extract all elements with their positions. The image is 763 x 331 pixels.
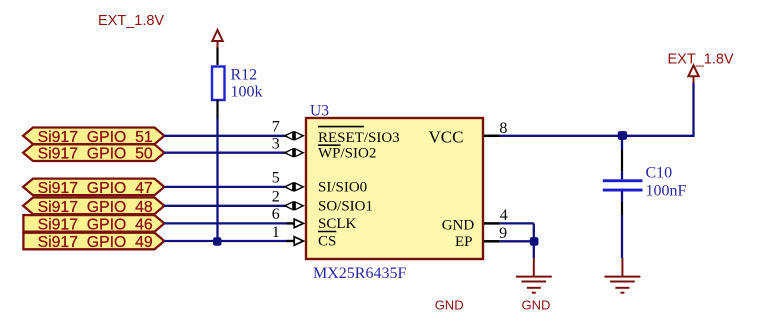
overline WP xyxy=(318,144,341,146)
wire EP pin 9 xyxy=(500,240,534,242)
svg-text:100nF: 100nF xyxy=(646,183,687,200)
svg-text:100k: 100k xyxy=(231,84,263,101)
power port arrow EXT_1.8V (left) xyxy=(212,30,222,48)
port Si917_GPIO_46 (flat left) xyxy=(23,215,164,233)
svg-text:RESET/SIO3: RESET/SIO3 xyxy=(318,130,400,146)
resistor R12 bottom pin xyxy=(216,100,218,120)
svg-text:SO/SIO1: SO/SIO1 xyxy=(318,199,373,215)
svg-text:EP: EP xyxy=(455,234,473,250)
wire net Si917_GPIO_48 to pin 2 xyxy=(164,205,286,207)
pin 3 bidirectional arrow xyxy=(283,148,305,157)
pin 8 stub xyxy=(484,135,500,138)
junction on CS net at R12 xyxy=(213,237,222,246)
port Si917_GPIO_49 (flat left) xyxy=(23,233,164,251)
ground symbol (under EP) xyxy=(516,258,552,293)
overline RESET xyxy=(318,126,364,128)
svg-text:SCLK: SCLK xyxy=(318,216,357,232)
pin 1 input arrow xyxy=(287,237,304,246)
capacitor C10 xyxy=(603,179,643,191)
svg-text:Si917 GPIO 49: Si917 GPIO 49 xyxy=(38,234,153,251)
port Si917_GPIO_47 xyxy=(23,179,164,197)
wire net Si917_GPIO_46 to pin 6 xyxy=(164,222,287,224)
svg-text:CS: CS xyxy=(318,234,336,250)
svg-text:4: 4 xyxy=(500,207,508,224)
svg-text:6: 6 xyxy=(272,206,280,223)
wire to ground xyxy=(533,241,535,258)
junction GND/EP xyxy=(530,237,539,246)
svg-text:2: 2 xyxy=(272,189,280,206)
svg-text:WP/SIO2: WP/SIO2 xyxy=(318,145,376,161)
svg-text:MX25R6435F: MX25R6435F xyxy=(313,265,406,282)
wire C10 top xyxy=(621,136,623,150)
pin 4 stub xyxy=(484,222,500,225)
svg-text:SI/SIO0: SI/SIO0 xyxy=(318,180,367,196)
wire VCC vertical to power port xyxy=(692,83,694,137)
svg-text:8: 8 xyxy=(499,120,507,137)
resistor R12 xyxy=(212,67,225,101)
wire vertical from R12 to CS net xyxy=(216,118,218,241)
svg-text:Si917 GPIO 47: Si917 GPIO 47 xyxy=(38,180,153,197)
wire VCC net xyxy=(500,135,694,137)
pin 6 input arrow xyxy=(287,219,304,228)
svg-text:9: 9 xyxy=(499,225,507,242)
svg-text:R12: R12 xyxy=(231,67,258,84)
svg-text:EXT_1.8V: EXT_1.8V xyxy=(98,13,164,29)
IC U3 body xyxy=(306,118,483,259)
port Si917_GPIO_48 xyxy=(23,198,164,216)
wire C10 to ground xyxy=(621,215,623,258)
pin 2 bidirectional arrow xyxy=(283,201,305,210)
svg-text:3: 3 xyxy=(272,136,280,153)
wire net Si917_GPIO_51 to pin 7 xyxy=(164,135,286,137)
svg-text:7: 7 xyxy=(272,119,280,136)
svg-text:VCC: VCC xyxy=(429,128,464,147)
capacitor C10 bottom pin xyxy=(621,192,623,203)
svg-text:GND: GND xyxy=(442,218,475,234)
wire net Si917_GPIO_50 to pin 3 xyxy=(164,152,286,154)
ground symbol (under C10) xyxy=(604,258,640,293)
svg-text:1: 1 xyxy=(272,224,280,241)
svg-text:C10: C10 xyxy=(646,165,673,182)
pin 9 stub xyxy=(484,240,500,243)
svg-text:Si917 GPIO 48: Si917 GPIO 48 xyxy=(38,199,153,216)
port Si917_GPIO_50 xyxy=(23,144,164,162)
junction on VCC net at C10 xyxy=(618,131,627,140)
overline CS xyxy=(318,231,336,233)
svg-text:5: 5 xyxy=(272,170,280,187)
wire GND pin 4 xyxy=(500,222,534,224)
svg-text:Si917 GPIO 50: Si917 GPIO 50 xyxy=(38,146,153,163)
power port arrow EXT_1.8V (right) xyxy=(688,65,698,83)
svg-text:Si917 GPIO 46: Si917 GPIO 46 xyxy=(38,216,153,233)
pin 5 bidirectional arrow xyxy=(283,182,305,191)
wire net Si917_GPIO_49 to pin 1 (CS) xyxy=(164,240,287,242)
pin 7 bidirectional arrow xyxy=(283,131,305,140)
port Si917_GPIO_51 xyxy=(23,128,164,146)
resistor R12 top pin xyxy=(216,48,218,66)
svg-text:U3: U3 xyxy=(310,103,329,120)
svg-text:EXT_1.8V: EXT_1.8V xyxy=(668,52,734,68)
wire net Si917_GPIO_47 to pin 5 xyxy=(164,186,286,188)
svg-text:GND: GND xyxy=(522,298,551,313)
capacitor C10 top pin xyxy=(621,150,623,171)
svg-text:GND: GND xyxy=(435,298,464,313)
